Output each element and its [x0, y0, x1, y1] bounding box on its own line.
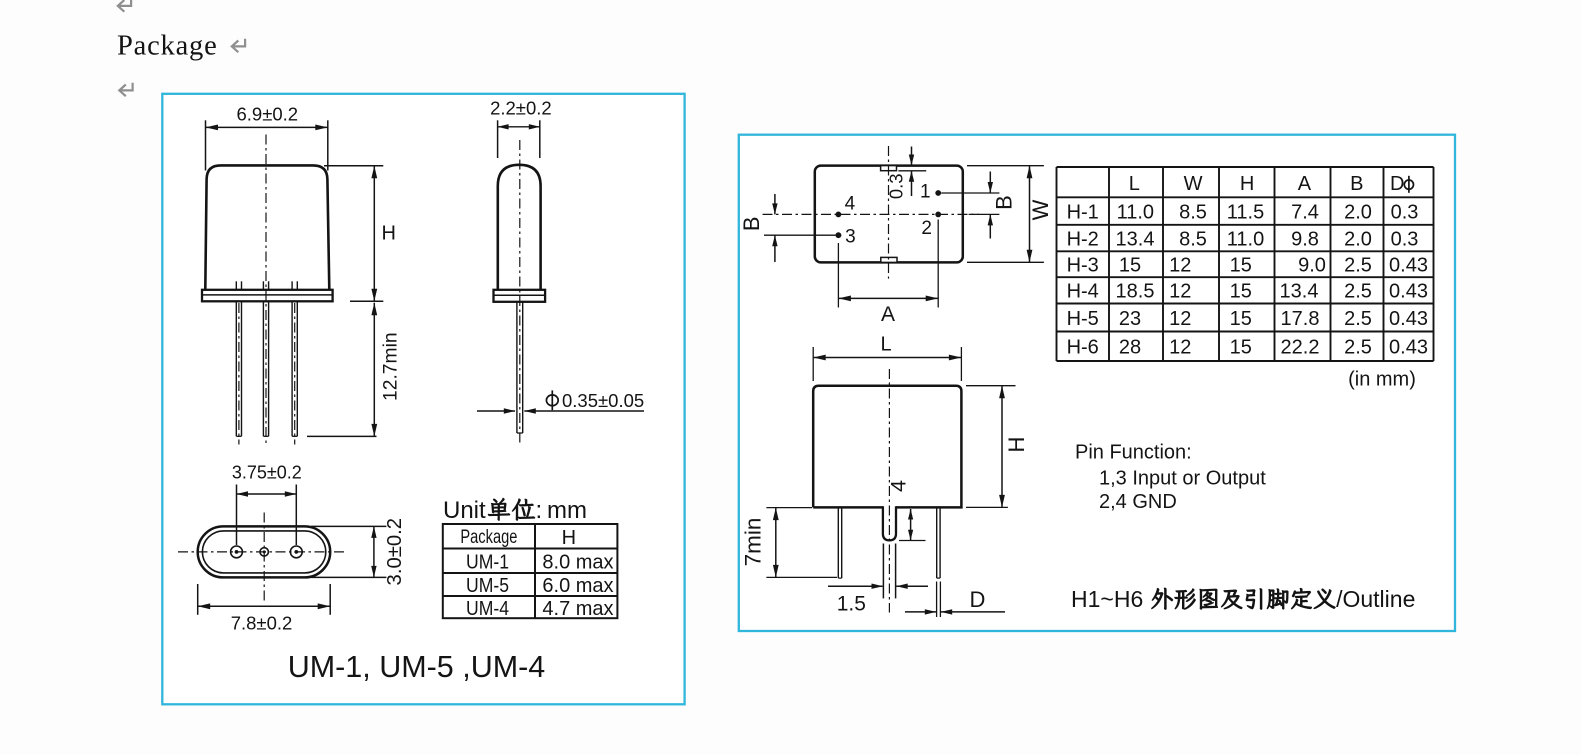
svg-text:0.35±0.05: 0.35±0.05 [562, 390, 644, 411]
svg-text:8.5: 8.5 [1179, 201, 1207, 223]
svg-text:0.3: 0.3 [1391, 201, 1419, 223]
H package body front view outline [813, 386, 961, 508]
top view vertical centerline [888, 146, 890, 279]
front view vertical centerline [888, 369, 890, 613]
dimension 2.2±0.2 extension lines [497, 120, 499, 158]
4 dimension line with arrows [910, 509, 912, 540]
svg-text:3.75±0.2: 3.75±0.2 [232, 463, 302, 483]
svg-text:11.0: 11.0 [1227, 228, 1264, 250]
svg-text:Pin Function:: Pin Function: [1075, 442, 1192, 464]
svg-text:2.5: 2.5 [1344, 255, 1372, 277]
12.7min bottom extension line [307, 435, 377, 437]
svg-text:H1~H6: H1~H6 [1071, 586, 1143, 612]
pin 2 front view [262, 301, 264, 436]
bottom view hole pin 3 [290, 546, 302, 558]
svg-text:UM-1: UM-1 [466, 552, 509, 574]
svg-text:W: W [1184, 173, 1203, 195]
svg-text:/Outline: /Outline [1336, 586, 1415, 612]
svg-text:UM-1, UM-5 ,UM-4: UM-1, UM-5 ,UM-4 [288, 650, 546, 684]
svg-text:B: B [992, 195, 1017, 210]
svg-text:H-1: H-1 [1067, 201, 1099, 223]
bottom view center hole [260, 548, 268, 556]
svg-text:7.4: 7.4 [1291, 201, 1319, 223]
svg-text:2.5: 2.5 [1344, 281, 1372, 303]
svg-text:2,4 GND: 2,4 GND [1099, 491, 1177, 513]
D dimension arrows [905, 611, 936, 613]
svg-text:2: 2 [921, 218, 932, 239]
L dimension line with arrows [813, 357, 961, 359]
svg-text:4: 4 [887, 480, 911, 492]
dimension label Φ 0.35±0.05 [546, 395, 558, 406]
right panel cyan border (H package drawing) [739, 135, 1455, 631]
svg-text:0.43: 0.43 [1389, 337, 1428, 359]
paragraph return mark above heading [118, 0, 131, 12]
0.3 dimension upper arrow [911, 147, 913, 166]
svg-text:12.7min: 12.7min [380, 332, 401, 401]
svg-text:H: H [562, 527, 576, 549]
bottom view inner stadium outline [202, 531, 325, 573]
svg-text:D: D [1390, 173, 1404, 195]
svg-text:8.5: 8.5 [1179, 228, 1207, 250]
H dimension extension lines (front view) [966, 385, 1016, 387]
svg-text:9.0: 9.0 [1298, 255, 1326, 277]
svg-text:1.5: 1.5 [837, 593, 866, 616]
svg-text:12: 12 [1169, 337, 1191, 359]
pin diameter dimension arrows [477, 410, 515, 412]
svg-text:2.2±0.2: 2.2±0.2 [490, 98, 552, 119]
svg-text:L: L [1129, 173, 1140, 195]
A dimension line with arrows [838, 297, 938, 299]
svg-text:23: 23 [1119, 308, 1141, 330]
dimension 7.8±0.2 line with arrows [198, 605, 331, 607]
svg-text:28: 28 [1119, 337, 1141, 359]
svg-text:7.8±0.2: 7.8±0.2 [231, 613, 293, 634]
pin 4 dot [836, 212, 842, 218]
svg-text:A: A [881, 303, 895, 326]
UM package body side view [498, 165, 541, 289]
svg-text:UM-5: UM-5 [466, 575, 509, 597]
UM package height table grid [443, 524, 618, 618]
svg-text:1: 1 [920, 181, 931, 202]
svg-text:0.43: 0.43 [1389, 281, 1428, 303]
crystal holder U channel [883, 506, 896, 540]
svg-text:3: 3 [845, 226, 856, 247]
svg-text:1,3 Input or Output: 1,3 Input or Output [1099, 468, 1266, 490]
UM package base flange front view [202, 290, 333, 302]
dimension 3.0±0.2 line with arrows [373, 526, 375, 577]
7min dimension extension lines [766, 507, 812, 509]
W dimension extension lines [967, 165, 1044, 167]
pin 3 extension line to left [764, 234, 841, 236]
dimension 3.0±0.2 extension lines [311, 525, 386, 527]
svg-text:H: H [1004, 437, 1029, 453]
svg-text:A: A [1298, 173, 1312, 195]
bottom view horizontal centerline [178, 551, 345, 553]
right B dimension arrows [989, 172, 991, 194]
dimension 6.9±0.2 extension lines [205, 120, 207, 170]
front view vertical centerline [265, 135, 267, 445]
UM package body front view [205, 165, 329, 289]
left lead front view [837, 507, 839, 578]
svg-text:H: H [382, 223, 396, 245]
4 dimension extension line [899, 540, 926, 542]
svg-text:15: 15 [1230, 281, 1252, 303]
svg-text:D: D [970, 587, 986, 612]
svg-text:7min: 7min [741, 518, 766, 567]
svg-text:4: 4 [845, 194, 856, 215]
svg-text:22.2: 22.2 [1281, 337, 1320, 359]
svg-text:3.0±0.2: 3.0±0.2 [384, 518, 406, 586]
svg-text:2.5: 2.5 [1344, 308, 1372, 330]
svg-text:13.4: 13.4 [1116, 228, 1155, 250]
svg-text:0.43: 0.43 [1389, 255, 1428, 277]
svg-text:12: 12 [1169, 255, 1191, 277]
svg-text:4.7 max: 4.7 max [542, 598, 613, 620]
H series dimension table grid [1057, 167, 1434, 361]
flange middle line [202, 294, 333, 296]
svg-text:H-4: H-4 [1067, 281, 1099, 303]
right lead front view [936, 507, 938, 578]
svg-text:2.5: 2.5 [1344, 337, 1372, 359]
pin 3 front view [291, 301, 293, 436]
12.7min dimension line with arrows [373, 303, 375, 437]
W dimension line with arrows [1029, 166, 1031, 263]
side flange middle line [494, 294, 546, 296]
side view vertical centerline [519, 140, 521, 443]
svg-text:11.5: 11.5 [1227, 201, 1264, 223]
svg-text:18.5: 18.5 [1116, 281, 1155, 303]
svg-text:H-2: H-2 [1067, 228, 1099, 250]
svg-text:15: 15 [1119, 255, 1141, 277]
7min dimension line with arrows [775, 508, 777, 578]
pin side view [516, 302, 518, 433]
0.3 tab bottom extension line [898, 170, 926, 172]
svg-text:12: 12 [1169, 281, 1191, 303]
left panel cyan border (UM package drawing) [162, 94, 684, 705]
svg-text:8.0 max: 8.0 max [542, 552, 613, 574]
H package top view outline [815, 166, 963, 263]
svg-text:15: 15 [1230, 337, 1252, 359]
svg-text:Package: Package [117, 31, 218, 62]
svg-text:H-3: H-3 [1067, 255, 1099, 277]
bottom view hole pin 1 [231, 546, 243, 558]
svg-text:Package: Package [460, 527, 517, 548]
svg-text:W: W [1028, 199, 1053, 220]
svg-text:6.9±0.2: 6.9±0.2 [237, 104, 299, 125]
svg-text:9.8: 9.8 [1291, 228, 1319, 250]
svg-text:12: 12 [1169, 308, 1191, 330]
svg-text:(in mm): (in mm) [1348, 369, 1416, 391]
A dimension extension lines [837, 243, 839, 308]
pin 1 centerline [238, 303, 240, 445]
L dimension extension lines [812, 347, 814, 381]
svg-text:13.4: 13.4 [1280, 281, 1319, 303]
svg-text:H-5: H-5 [1067, 308, 1099, 330]
UM package base flange side view [494, 290, 546, 302]
paragraph return mark below heading [119, 83, 132, 96]
svg-text:2.0: 2.0 [1344, 228, 1372, 250]
svg-text:6.0 max: 6.0 max [542, 575, 613, 597]
H dimension line with arrows [373, 166, 375, 302]
pin 1 dot [935, 190, 941, 196]
paragraph return mark after heading [232, 39, 245, 52]
left B dimension arrows [774, 194, 776, 214]
bottom view outer stadium outline [198, 526, 331, 577]
H dimension top extension line [324, 165, 383, 167]
top tab [881, 166, 897, 171]
pin 1 extension line to right [941, 192, 999, 194]
center stub below U channel [882, 544, 884, 599]
bottom view vertical centerline [263, 513, 265, 602]
bottom tab [881, 257, 897, 262]
svg-text:H: H [1240, 173, 1254, 195]
1.5 dimension arrows [828, 585, 883, 587]
pin 1 front view [235, 301, 237, 436]
svg-text:Unit: Unit [443, 497, 486, 524]
H dimension line with arrows (front view) [1001, 386, 1003, 508]
svg-text:UM-4: UM-4 [466, 598, 509, 620]
dimension 2.2±0.2 line with arrows [498, 126, 540, 128]
svg-text:0.43: 0.43 [1389, 308, 1428, 330]
top view horizontal centerline [763, 213, 980, 215]
0.3 dimension lower arrow [911, 171, 913, 196]
dimension 7.8±0.2 extension lines [197, 584, 199, 615]
svg-text:11.0: 11.0 [1117, 201, 1154, 223]
pin 3 centerline [294, 303, 296, 445]
dimension 3.75±0.2 line with arrows [237, 493, 297, 495]
svg-text:17.8: 17.8 [1281, 308, 1320, 330]
dimension 6.9±0.2 line with arrows [206, 126, 328, 128]
svg-text:mm: mm [547, 497, 587, 524]
svg-text:0.3: 0.3 [886, 173, 907, 199]
svg-text:L: L [880, 334, 891, 356]
svg-text:H-6: H-6 [1067, 337, 1099, 359]
svg-text:15: 15 [1230, 255, 1252, 277]
pin 2 dot [935, 212, 941, 218]
pin 3 dot [836, 232, 842, 238]
svg-text:2.0: 2.0 [1344, 201, 1372, 223]
dimension 3.75±0.2 extension lines [236, 485, 238, 546]
right centerline extension [969, 213, 1000, 215]
D dimension phantom lead lines [936, 582, 938, 618]
svg-text::: : [536, 497, 543, 524]
H dimension bottom extension line (flange bottom) [350, 300, 383, 302]
svg-text:B: B [739, 216, 764, 231]
svg-text:B: B [1350, 173, 1363, 195]
svg-text:0.3: 0.3 [1391, 228, 1419, 250]
pin stubs above flange [235, 281, 237, 289]
svg-text:15: 15 [1230, 308, 1252, 330]
